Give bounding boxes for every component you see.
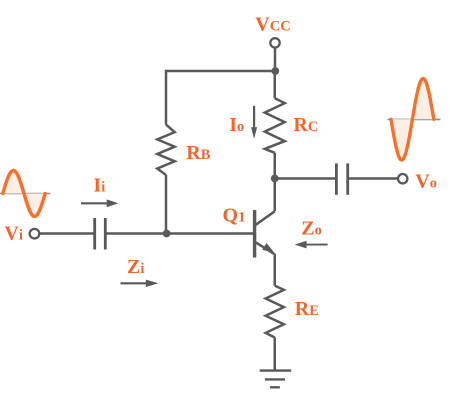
svg-text:Vi: Vi — [4, 223, 22, 245]
svg-text:Q1: Q1 — [223, 205, 246, 227]
svg-text:Zi: Zi — [127, 256, 144, 278]
svg-text:Zo: Zo — [301, 218, 322, 240]
svg-text:RB: RB — [186, 142, 210, 164]
svg-text:Ii: Ii — [93, 175, 105, 197]
svg-text:Io: Io — [229, 114, 244, 136]
svg-text:RE: RE — [295, 298, 319, 320]
svg-text:Vo: Vo — [415, 170, 437, 192]
svg-text:RC: RC — [293, 114, 318, 136]
svg-text:VCC: VCC — [255, 14, 290, 36]
